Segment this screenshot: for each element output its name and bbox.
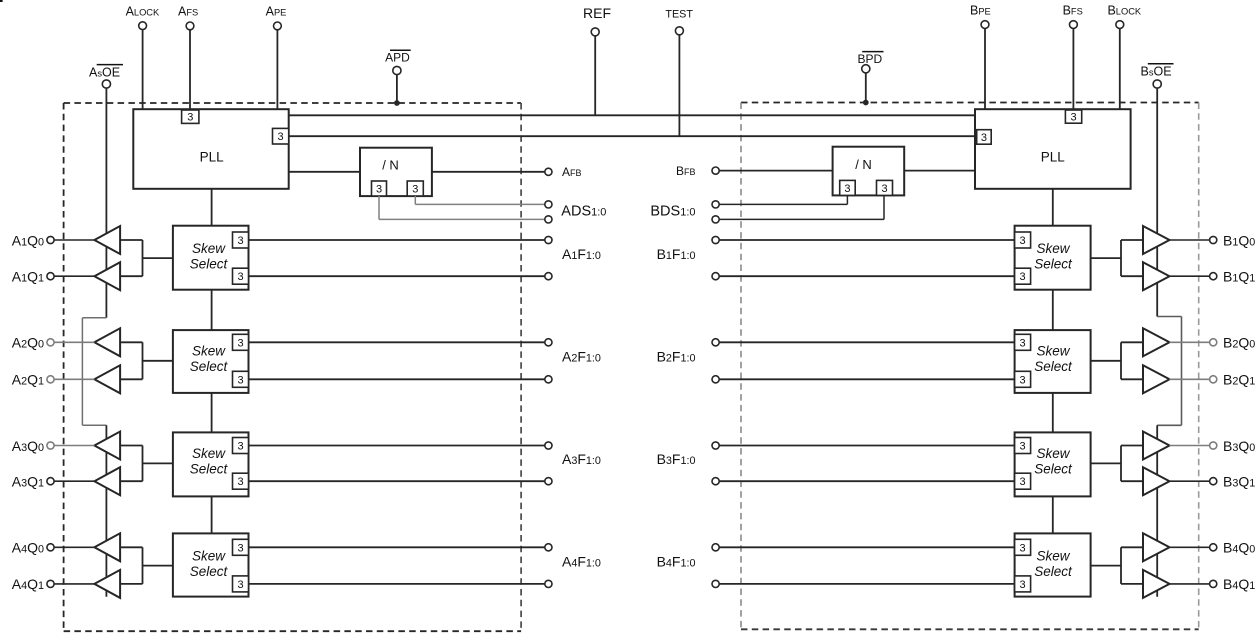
svg-text:PLL: PLL [1041, 149, 1066, 164]
svg-text:3: 3 [237, 542, 243, 554]
svg-text:3: 3 [187, 112, 193, 124]
buffer A2Q0 (tri-state, output left) [94, 328, 120, 356]
pin A2Q1 terminal [47, 376, 54, 383]
wire Skew Select chain B2 to B3 [1052, 393, 1054, 433]
pin B4Q0 terminal [1210, 544, 1217, 551]
wire buffer to A2Q0 terminal [54, 341, 94, 343]
bus width 3 port A4F1 on Skew Select A4 [233, 539, 249, 555]
svg-text:Skew: Skew [192, 548, 226, 563]
pin A4F0 terminal [545, 580, 552, 587]
wire A2F1 to terminal [249, 341, 545, 343]
pin A3Q0 terminal [47, 442, 54, 449]
wire AFS to PLL A bus-3 port [189, 30, 191, 110]
wire buffer to B4Q1 terminal [1170, 583, 1210, 585]
pin BFS terminal [1070, 21, 1078, 29]
wire BsOE enable rail segment through B3 B4 buffers [1156, 425, 1158, 597]
pin BDS1 terminal [712, 201, 719, 208]
wire A1F0 to terminal [249, 275, 545, 277]
pin B1F0 terminal [712, 273, 719, 280]
svg-text:Skew: Skew [192, 241, 226, 256]
svg-text:BFS: BFS [1063, 3, 1083, 17]
svg-text:Skew: Skew [1036, 344, 1070, 359]
wire Skew Select A2 output bracket [120, 342, 173, 379]
test bus wire between PLL A port and PLL B port [289, 135, 975, 137]
svg-text:Skew: Skew [192, 344, 226, 359]
pin A3F0 terminal [545, 478, 552, 485]
wire buffer to B3Q1 terminal [1170, 480, 1210, 482]
wire buffer to B1Q0 terminal [1170, 239, 1210, 241]
bus width 3 port A2F1 on Skew Select A2 [233, 334, 249, 350]
block PLL A [133, 109, 288, 189]
svg-text:BDS1:0: BDS1:0 [650, 203, 695, 219]
svg-text:3: 3 [237, 271, 243, 283]
bus width 3 port A1F0 on Skew Select A1 [233, 268, 249, 284]
wire B2F0 terminal to Skew Select B2 [719, 378, 1014, 380]
pin B2Q0 terminal [1210, 339, 1217, 346]
pin A1Q0 terminal [47, 236, 54, 243]
wire BPE to PLL B [984, 29, 986, 110]
bus width 3 port A4F0 on Skew Select A4 [233, 576, 249, 592]
wire A4F0 to terminal [249, 583, 545, 585]
pin B3Q0 terminal [1210, 442, 1217, 449]
wire buffer to B3Q0 terminal [1170, 445, 1210, 447]
svg-text:3: 3 [376, 184, 382, 196]
svg-text:3: 3 [237, 441, 243, 453]
wire buffer to A4Q1 terminal [54, 583, 94, 585]
svg-text:Select: Select [190, 462, 229, 477]
wire buffer to A3Q0 terminal [54, 445, 94, 447]
wire BDS bit1 from /N B left port [719, 195, 847, 204]
block Skew Select B4 [1015, 533, 1091, 596]
wire BPD down to dashed boundary [865, 73, 867, 103]
pin A2Q0 terminal [47, 339, 54, 346]
reference bus wire between PLL A and PLL B [289, 114, 975, 116]
wire PLL B to Skew Select chain B [1052, 189, 1054, 226]
buffer A1Q1 (tri-state, output left) [94, 262, 120, 290]
svg-text:3: 3 [1020, 271, 1026, 283]
wire BsOE enable rail segment through B1 buffers [1156, 88, 1158, 316]
wire A3F0 to terminal [249, 480, 545, 482]
bus width 3 port B3F0 on Skew Select B3 [1015, 473, 1031, 489]
buffer A4Q1 (tri-state, output left) [94, 570, 120, 598]
pin B4Q1 terminal [1210, 580, 1217, 587]
svg-text:Skew: Skew [192, 446, 226, 461]
pin B3Q1 terminal [1210, 478, 1217, 485]
bus width 3 port B1F1 on Skew Select B1 [1015, 232, 1031, 248]
wire AsOE rail bypass segment around A2 buffers [81, 318, 83, 426]
svg-text:APE: APE [266, 4, 287, 18]
pin BFB terminal [712, 167, 719, 174]
svg-text:3: 3 [981, 132, 987, 144]
svg-text:Select: Select [190, 564, 229, 579]
svg-text:3: 3 [237, 235, 243, 247]
wire AsOE rail jog right lower [82, 424, 106, 426]
wire Skew Select chain B1 to B2 [1052, 290, 1054, 330]
bus width 3 port on /N B bottom right [877, 180, 893, 195]
bus width 3 port on /N B bottom left [840, 180, 856, 195]
svg-text:3: 3 [881, 183, 887, 195]
wire ADS bit1 from /N A right port [415, 196, 545, 204]
wire Skew Select A1 output bracket [120, 240, 173, 276]
svg-text:3: 3 [1020, 337, 1026, 349]
bus width 3 port A3F1 on Skew Select A3 [233, 438, 249, 454]
wire /N B to PLL B [904, 170, 975, 172]
buffer B1Q0 (tri-state, output right) [1143, 226, 1170, 254]
svg-text:ALOCK: ALOCK [126, 4, 160, 18]
junction dot BPD on boundary [863, 100, 869, 106]
block Skew Select B1 [1015, 226, 1091, 290]
svg-text:/ N: / N [855, 157, 872, 172]
wire BsOE rail jog right upper [1157, 316, 1181, 318]
block divider /N B [833, 147, 905, 196]
bus width 3 port B4F1 on Skew Select B4 [1015, 539, 1031, 555]
wire Skew Select A4 output bracket [120, 547, 173, 584]
svg-text:Select: Select [190, 359, 229, 374]
buffer B2Q1 (tri-state, output right) [1143, 365, 1170, 393]
svg-text:REF: REF [583, 5, 611, 21]
wire B2F1 terminal to Skew Select B2 [719, 341, 1014, 343]
bank B dashed boundary box [741, 103, 1199, 630]
bus width 3 port on PLL B top (BFS) [1065, 110, 1081, 123]
bus width 3 port B4F0 on Skew Select B4 [1015, 576, 1031, 592]
buffer A3Q0 (tri-state, output left) [94, 432, 120, 460]
pin A1F0 terminal [545, 273, 552, 280]
buffer B2Q0 (tri-state, output right) [1143, 328, 1170, 356]
pin AFS terminal [186, 22, 194, 30]
pin BLOCK terminal [1116, 21, 1124, 29]
buffer A2Q1 (tri-state, output left) [94, 365, 120, 393]
buffer A3Q1 (tri-state, output left) [94, 467, 120, 495]
pin A2F1 terminal [545, 339, 552, 346]
pin B2Q1 terminal [1210, 376, 1217, 383]
svg-text:PLL: PLL [200, 149, 225, 164]
wire Skew Select B4 output bracket [1091, 547, 1143, 584]
svg-text:3: 3 [1020, 476, 1026, 488]
pin APE terminal [274, 22, 282, 30]
pin ADS0 terminal [545, 216, 552, 223]
pin TEST terminal [675, 27, 683, 35]
pin APD terminal [393, 66, 401, 74]
svg-text:Select: Select [1034, 256, 1073, 271]
bus width 3 port A3F0 on Skew Select A3 [233, 473, 249, 489]
pin ALOCK terminal [139, 22, 147, 30]
bus width 3 port B1F0 on Skew Select B1 [1015, 268, 1031, 284]
bank A dashed boundary box [64, 103, 521, 631]
pin AsOE terminal [102, 80, 110, 88]
pin BPE terminal [981, 21, 989, 29]
wire buffer to A3Q1 terminal [54, 480, 94, 482]
pin A2F0 terminal [545, 376, 552, 383]
svg-text:Select: Select [1034, 564, 1073, 579]
svg-text:3: 3 [844, 183, 850, 195]
pin BsOE terminal [1153, 80, 1161, 88]
wire PLL A to divider /N A [289, 171, 360, 173]
bus width 3 port B3F1 on Skew Select B3 [1015, 438, 1031, 454]
bus width 3 port on /N A bottom left [372, 181, 387, 196]
junction dot APD on boundary [394, 100, 400, 106]
wire buffer to A4Q0 terminal [54, 546, 94, 548]
wire Skew Select A3 output bracket [120, 446, 173, 482]
pin A4Q0 terminal [47, 544, 54, 551]
wire B1F1 terminal to Skew Select B1 [719, 239, 1014, 241]
svg-text:AFB: AFB [562, 165, 582, 179]
pin A1F1 terminal [545, 236, 552, 243]
pin REF terminal [591, 28, 599, 36]
block PLL B [975, 109, 1131, 189]
bus width 3 port A2F0 on Skew Select A2 [233, 371, 249, 387]
buffer A1Q0 (tri-state, output left) [94, 226, 120, 254]
wire buffer to B2Q1 terminal [1170, 378, 1210, 380]
svg-text:3: 3 [1020, 542, 1026, 554]
svg-text:3: 3 [237, 374, 243, 386]
block Skew Select A3 [173, 432, 249, 496]
svg-text:3: 3 [1020, 374, 1026, 386]
svg-text:BLOCK: BLOCK [1107, 3, 1141, 17]
svg-text:Skew: Skew [1036, 241, 1070, 256]
wire AsOE enable rail segment through A3 A4 buffers [105, 425, 107, 597]
wire Skew Select B2 output bracket [1091, 342, 1143, 379]
bus width 3 port on PLL A top (AFS) [182, 110, 199, 123]
block Skew Select B2 [1015, 330, 1091, 393]
wire A2F0 to terminal [249, 378, 545, 380]
wire BDS bit0 from /N B right port [719, 195, 884, 219]
wire APE to PLL A [276, 30, 278, 109]
wire A3F1 to terminal [249, 445, 545, 447]
svg-text:BPD: BPD [858, 52, 883, 66]
buffer A4Q0 (tri-state, output left) [94, 533, 120, 561]
pin B1F1 terminal [712, 236, 719, 243]
svg-text:3: 3 [1020, 441, 1026, 453]
svg-text:TEST: TEST [665, 8, 693, 20]
svg-text:ADS1:0: ADS1:0 [561, 203, 606, 219]
wire BsOE rail bypass segment around B2 buffers [1181, 317, 1183, 426]
wire Skew Select B1 output bracket [1091, 240, 1143, 276]
wire buffer to B4Q0 terminal [1170, 546, 1210, 548]
svg-text:/ N: / N [382, 158, 399, 173]
wire AsOE enable rail segment through A1 buffers [105, 88, 107, 318]
wire BFS to PLL B bus-3 port [1072, 29, 1074, 110]
pin BDS0 terminal [712, 216, 719, 223]
svg-text:Select: Select [1034, 359, 1073, 374]
pin B4F0 terminal [712, 580, 719, 587]
svg-text:AFS: AFS [178, 4, 198, 18]
pin AFB terminal [545, 168, 552, 175]
svg-text:3: 3 [237, 476, 243, 488]
svg-text:Skew: Skew [1036, 548, 1070, 563]
svg-text:BFB: BFB [676, 164, 696, 178]
wire B4F0 terminal to Skew Select B4 [719, 583, 1014, 585]
block Skew Select A1 [173, 226, 249, 290]
wire ADS bit0 from /N A left port [379, 196, 545, 219]
pin B1Q1 terminal [1210, 273, 1217, 280]
bus width 3 port A1F1 on Skew Select A1 [233, 232, 249, 248]
wire ALOCK to PLL A [142, 30, 144, 110]
svg-text:3: 3 [1070, 112, 1076, 124]
bus width 3 port on PLL A right (test bus) [273, 128, 289, 144]
wire buffer to B1Q1 terminal [1170, 275, 1210, 277]
svg-text:BsOE: BsOE [1140, 65, 1171, 79]
buffer B4Q1 (tri-state, output right) [1143, 570, 1170, 598]
wire /N A to AFB terminal [432, 171, 545, 173]
svg-text:APD: APD [385, 51, 410, 65]
wire TEST to test bus [678, 35, 680, 136]
svg-text:3: 3 [278, 131, 284, 143]
wire Skew Select chain A2 to A3 [211, 393, 213, 433]
bus width 3 port B2F1 on Skew Select B2 [1015, 334, 1031, 350]
pin BPD terminal [862, 65, 870, 73]
buffer B3Q0 (tri-state, output right) [1143, 432, 1170, 460]
pin B1Q0 terminal [1210, 236, 1217, 243]
block Skew Select B3 [1015, 432, 1091, 496]
wire Skew Select B3 output bracket [1091, 446, 1143, 482]
wire Skew Select chain B3 to B4 [1052, 496, 1054, 533]
pin B3F1 terminal [712, 442, 719, 449]
bus width 3 port on PLL B left (test bus) [977, 130, 992, 145]
buffer B4Q0 (tri-state, output right) [1143, 533, 1170, 561]
pin A4F1 terminal [545, 544, 552, 551]
bus width 3 port B2F0 on Skew Select B2 [1015, 371, 1031, 387]
pin A3Q1 terminal [47, 478, 54, 485]
wire buffer to B2Q0 terminal [1170, 341, 1210, 343]
wire buffer to A1Q1 terminal [54, 275, 94, 277]
svg-text:Select: Select [1034, 462, 1073, 477]
block Skew Select A4 [173, 533, 249, 596]
pin A3F1 terminal [545, 442, 552, 449]
wire A1F1 to terminal [249, 239, 545, 241]
wire BFB terminal to divider /N B [719, 170, 832, 172]
wire buffer to A2Q1 terminal [54, 378, 94, 380]
block divider /N A [360, 148, 432, 196]
wire REF to reference bus [594, 36, 596, 115]
wire B4F1 terminal to Skew Select B4 [719, 546, 1014, 548]
svg-text:AsOE: AsOE [89, 66, 120, 80]
svg-text:3: 3 [1020, 235, 1026, 247]
wire Skew Select chain A1 to A2 [211, 290, 213, 330]
wire AsOE rail jog left upper [82, 317, 106, 319]
wire B3F0 terminal to Skew Select B3 [719, 480, 1014, 482]
svg-text:3: 3 [237, 579, 243, 591]
wire Skew Select chain A3 to A4 [211, 496, 213, 533]
wire PLL A to Skew Select chain A [211, 189, 213, 226]
pin B3F0 terminal [712, 478, 719, 485]
svg-text:Skew: Skew [1036, 446, 1070, 461]
wire B3F1 terminal to Skew Select B3 [719, 445, 1014, 447]
wire B1F0 terminal to Skew Select B1 [719, 275, 1014, 277]
pin B2F1 terminal [712, 339, 719, 346]
block Skew Select A2 [173, 330, 249, 393]
svg-text:3: 3 [412, 184, 418, 196]
wire BsOE rail jog left lower [1157, 424, 1181, 426]
wire BLOCK to PLL B [1119, 29, 1121, 110]
wire APD down to dashed boundary [396, 75, 398, 104]
pin ADS1 terminal [545, 201, 552, 208]
svg-text:3: 3 [237, 337, 243, 349]
pin B2F0 terminal [712, 376, 719, 383]
svg-text:3: 3 [1020, 579, 1026, 591]
buffer B3Q1 (tri-state, output right) [1143, 467, 1170, 495]
wire buffer to A1Q0 terminal [54, 239, 94, 241]
bus width 3 port on /N A bottom right [407, 181, 423, 196]
pin A4Q1 terminal [47, 580, 54, 587]
buffer B1Q1 (tri-state, output right) [1143, 262, 1170, 290]
pin B4F1 terminal [712, 544, 719, 551]
pin A1Q1 terminal [47, 273, 54, 280]
svg-text:BPE: BPE [970, 3, 991, 17]
wire A4F1 to terminal [249, 546, 545, 548]
svg-text:Select: Select [190, 256, 229, 271]
